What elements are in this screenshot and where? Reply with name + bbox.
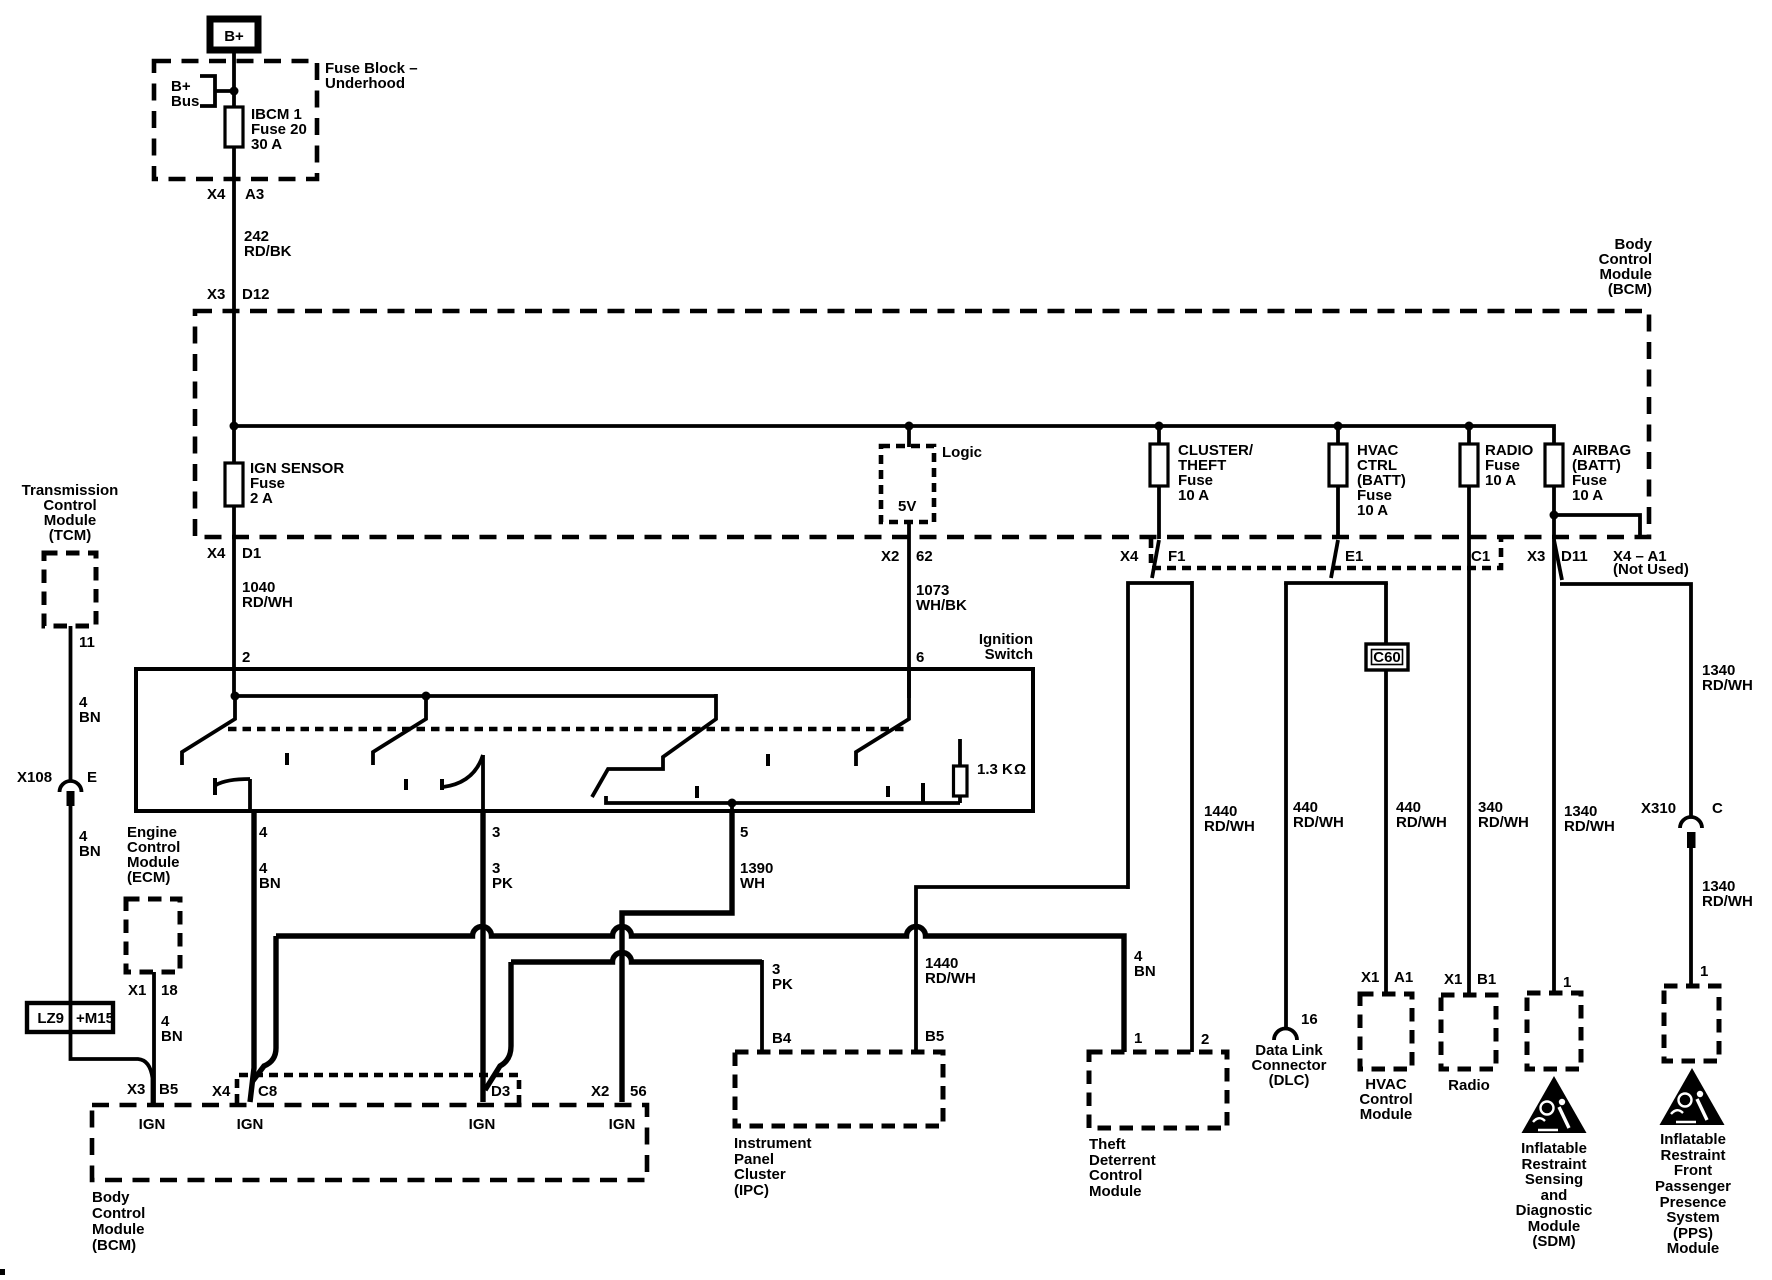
contact tick pin4 [213, 778, 217, 795]
node 5V Logic box [881, 446, 934, 522]
svg-text:(Not Used): (Not Used) [1613, 561, 1689, 578]
svg-text:B4: B4 [772, 1030, 792, 1047]
svg-text:IGN: IGN [237, 1116, 264, 1133]
wire 3 PK pin3 to BCM D3 [480, 811, 485, 1102]
contact tick [921, 783, 925, 803]
svg-text:C1: C1 [1471, 548, 1490, 565]
B+ battery terminal [210, 19, 258, 50]
svg-text:X108: X108 [17, 769, 52, 786]
svg-text:IGN: IGN [609, 1116, 636, 1133]
module PPS box [1664, 986, 1719, 1061]
svg-text:A3: A3 [245, 186, 264, 203]
svg-text:C: C [1712, 800, 1723, 817]
svg-text:BN: BN [259, 875, 281, 892]
svg-text:Module: Module [1089, 1183, 1142, 1200]
component LZ9 +M15 box [27, 1003, 113, 1032]
wire 1440 RD/WH to theft deterrent pin 2 [1190, 581, 1194, 1052]
svg-text:RD/WH: RD/WH [1204, 818, 1255, 835]
svg-text:X4: X4 [1120, 548, 1139, 565]
wire 1340 RD/WH X310 to PPS [1689, 848, 1693, 986]
wire E1 connector slant [1331, 540, 1338, 578]
mechanical link dashed line [228, 727, 904, 732]
svg-text:(ECM): (ECM) [127, 869, 170, 886]
wire E1 tee [1286, 583, 1386, 585]
svg-text:Control: Control [92, 1205, 145, 1222]
svg-text:D1: D1 [242, 545, 261, 562]
svg-text:Body: Body [92, 1189, 130, 1206]
svg-text:B5: B5 [925, 1028, 944, 1045]
fuse IBCM 1 Fuse 20 30A [225, 107, 243, 147]
svg-text:(BCM): (BCM) [1608, 281, 1652, 298]
contact tick [404, 779, 408, 790]
junction bus at 1338 [1334, 422, 1343, 431]
module BCM main box [195, 311, 1649, 537]
svg-text:BN: BN [79, 843, 101, 860]
svg-text:Control: Control [1089, 1167, 1142, 1184]
svg-text:Cluster: Cluster [734, 1166, 786, 1183]
junction B+ bus [230, 87, 239, 96]
junction airbag fuse split [1550, 511, 1559, 520]
svg-text:X2: X2 [881, 548, 899, 565]
svg-text:C8: C8 [258, 1083, 277, 1100]
svg-text:1.3 K: 1.3 K [977, 761, 1013, 778]
svg-text:Ω: Ω [1014, 761, 1026, 778]
svg-text:X1: X1 [128, 982, 146, 999]
fuse CLUSTER/THEFT 10A [1157, 426, 1161, 444]
svg-text:1: 1 [1700, 963, 1708, 980]
wire 4 BN branch from theft rail [252, 936, 276, 1082]
junction bus at 1159 [1155, 422, 1164, 431]
module ECM dashed box [126, 899, 180, 972]
junction bus at 234 [230, 422, 239, 431]
svg-text:Logic: Logic [942, 444, 982, 461]
svg-text:X4: X4 [212, 1083, 231, 1100]
svg-text:Instrument: Instrument [734, 1135, 812, 1152]
wire 4 BN pin4 to BCM C8 [250, 811, 254, 1102]
junction pin5 rail [728, 799, 737, 808]
wire 1073 WH/BK to ignition switch pin 6 [907, 524, 911, 698]
wire hvac fuse to E1 [1336, 486, 1340, 539]
module SDM box [1527, 993, 1581, 1069]
wire 242 RD/BK fuse to BCM [232, 147, 236, 463]
wire F1 tee [1128, 583, 1192, 889]
svg-text:1: 1 [1134, 1030, 1142, 1047]
svg-text:X310: X310 [1641, 800, 1676, 817]
svg-text:E: E [87, 769, 97, 786]
svg-text:C60: C60 [1373, 649, 1401, 666]
fuse AIRBAG (BATT) 10A [1545, 444, 1563, 486]
svg-text:Passenger: Passenger [1655, 1178, 1731, 1195]
module TCM dashed box [44, 553, 96, 626]
contact tick [766, 754, 770, 766]
junction rail mid [422, 692, 431, 701]
wire switch internal top rail [235, 694, 716, 698]
wire B+ down to fuse [232, 50, 236, 107]
wire 440 RD/WH to HVAC control module [1384, 583, 1388, 994]
svg-text:D12: D12 [242, 286, 270, 303]
module HVAC control module box [1360, 994, 1412, 1069]
wire airbag fuse down through D11 to SDM [1552, 486, 1556, 993]
contact tick [285, 753, 289, 765]
switch blade pin 6 [856, 669, 909, 766]
connector DLC arc [1274, 1029, 1297, 1041]
wire F1 connector slant [1152, 540, 1159, 578]
artifact dot bottom left [0, 1269, 5, 1275]
wire ECM pin 18 to BCM B5 [152, 972, 156, 1103]
svg-text:LZ9: LZ9 [37, 1010, 64, 1027]
wire pin 3 inside switch [481, 755, 485, 811]
switch blade ACC assembly [592, 694, 716, 797]
svg-text:Inflatable: Inflatable [1660, 1131, 1726, 1148]
switch blade 2 [373, 696, 426, 765]
svg-text:2 A: 2 A [250, 490, 273, 507]
svg-text:X4: X4 [207, 545, 226, 562]
fuse block underhood box [154, 61, 317, 179]
svg-text:30 A: 30 A [251, 136, 282, 153]
svg-text:+M15: +M15 [76, 1010, 114, 1027]
svg-text:18: 18 [161, 982, 178, 999]
svg-text:RD/WH: RD/WH [1564, 818, 1615, 835]
svg-text:RD/WH: RD/WH [1396, 814, 1447, 831]
wire 340 RD/WH to radio [1467, 486, 1471, 995]
svg-text:B5: B5 [159, 1081, 178, 1098]
wire B+ bus tap [215, 89, 234, 93]
svg-text:10 A: 10 A [1485, 472, 1516, 489]
svg-text:1: 1 [1563, 974, 1571, 991]
svg-text:Sensing: Sensing [1525, 1171, 1583, 1188]
svg-text:RD/WH: RD/WH [1702, 893, 1753, 910]
wire 3 PK drop to B4 [760, 960, 764, 1052]
junction pin2 rail [231, 692, 240, 701]
svg-text:(BCM): (BCM) [92, 1237, 136, 1254]
svg-text:RD/WH: RD/WH [925, 970, 976, 987]
svg-text:Underhood: Underhood [325, 75, 405, 92]
svg-text:16: 16 [1301, 1011, 1318, 1028]
svg-text:Switch: Switch [985, 646, 1033, 663]
switch ignition switch box [136, 669, 1033, 811]
module BCM lower dashed box [92, 1105, 647, 1180]
svg-text:(SDM): (SDM) [1532, 1233, 1575, 1250]
svg-text:Module: Module [1360, 1106, 1413, 1123]
junction bus at 1469 [1465, 422, 1474, 431]
wire 4 BN rail to theft deterrent with hops [276, 927, 1124, 1053]
wire 1040 RD/WH to ignition switch pin 2 [232, 506, 236, 698]
svg-text:3: 3 [492, 824, 500, 841]
svg-text:RD/WH: RD/WH [1293, 814, 1344, 831]
svg-text:(TCM): (TCM) [49, 527, 91, 544]
wire cluster fuse to F1 [1157, 486, 1161, 539]
svg-text:X3: X3 [1527, 548, 1545, 565]
contact tick pin3 [440, 779, 444, 790]
svg-text:F1: F1 [1168, 548, 1186, 565]
svg-text:System: System [1666, 1209, 1719, 1226]
svg-text:X1: X1 [1361, 969, 1379, 986]
connector strip dotted left [1151, 539, 1501, 568]
svg-text:Front: Front [1674, 1162, 1712, 1179]
wire through LZ9 box [69, 1003, 73, 1032]
junction bus at 909 [905, 422, 914, 431]
svg-text:Bus: Bus [171, 93, 199, 110]
svg-text:Module: Module [1667, 1240, 1720, 1257]
svg-text:Diagnostic: Diagnostic [1516, 1202, 1593, 1219]
connector X4 dotted strip [237, 1075, 519, 1103]
svg-text:2: 2 [1201, 1031, 1209, 1048]
icon SDM airbag warning triangle [1522, 1076, 1587, 1133]
svg-text:10 A: 10 A [1572, 487, 1603, 504]
svg-text:RD/BK: RD/BK [244, 243, 292, 260]
svg-text:BN: BN [161, 1028, 183, 1045]
svg-text:X2: X2 [591, 1083, 609, 1100]
icon PPS airbag warning triangle [1660, 1068, 1725, 1125]
module IPC dashed box [735, 1052, 943, 1126]
svg-text:56: 56 [630, 1083, 647, 1100]
contact arc pin3 [443, 755, 483, 787]
svg-text:X3: X3 [127, 1081, 145, 1098]
svg-text:X4: X4 [207, 186, 226, 203]
wire 1340 RD/WH branch to X310 [1560, 584, 1691, 817]
svg-text:5V: 5V [898, 498, 916, 515]
svg-text:A1: A1 [1394, 969, 1413, 986]
svg-text:D11: D11 [1561, 548, 1588, 565]
svg-text:Inflatable: Inflatable [1521, 1140, 1587, 1157]
svg-text:IGN: IGN [469, 1116, 496, 1133]
switch blade 1 [182, 696, 235, 765]
svg-text:10 A: 10 A [1357, 502, 1388, 519]
wire 440 RD/WH to DLC [1284, 583, 1288, 1029]
svg-text:10 A: 10 A [1178, 487, 1209, 504]
svg-text:RD/WH: RD/WH [1702, 677, 1753, 694]
svg-text:X1: X1 [1444, 971, 1462, 988]
wire 3 PK branch to D3 [485, 962, 511, 1090]
svg-text:(DLC): (DLC) [1269, 1072, 1310, 1089]
svg-text:BN: BN [79, 709, 101, 726]
wire B+ bus bracket [200, 76, 215, 106]
module theft deterrent control module box [1089, 1052, 1227, 1128]
wire 1390 WH pin5 to BCM 56 [730, 803, 734, 811]
svg-text:WH/BK: WH/BK [916, 597, 967, 614]
svg-text:E1: E1 [1345, 548, 1363, 565]
svg-text:(IPC): (IPC) [734, 1182, 769, 1199]
wire TCM pin 11 down [69, 626, 73, 780]
svg-text:RD/WH: RD/WH [242, 594, 293, 611]
contact tick [695, 786, 699, 798]
svg-text:B+: B+ [224, 28, 244, 45]
contact tick [886, 786, 890, 797]
wire 1440 RD/WH to IPC B5 [916, 887, 1128, 1052]
wire X4-A1 not used stub [1554, 515, 1640, 535]
wire bus tap to 5V logic [907, 426, 911, 447]
wire TCM to BCM B5 [71, 806, 153, 1103]
wire D11 connector slant [1554, 540, 1562, 580]
svg-text:B1: B1 [1477, 971, 1496, 988]
fuse IGN SENSOR 2A [225, 463, 243, 506]
module radio box [1441, 995, 1496, 1069]
svg-text:WH: WH [740, 875, 765, 892]
svg-text:Radio: Radio [1448, 1077, 1490, 1094]
svg-text:Theft: Theft [1089, 1136, 1126, 1153]
wire 3 PK rail to IPC B4 with hop [511, 953, 762, 963]
svg-text:PK: PK [772, 976, 793, 993]
svg-text:6: 6 [916, 649, 924, 666]
resistor 1.3 K [958, 739, 962, 803]
svg-text:4: 4 [259, 824, 268, 841]
svg-text:5: 5 [740, 824, 748, 841]
svg-text:IGN: IGN [139, 1116, 166, 1133]
fuse HVAC CTRL (BATT) 10A [1336, 426, 1340, 444]
wire main bus inside BCM [234, 426, 1554, 444]
svg-text:RD/WH: RD/WH [1478, 814, 1529, 831]
svg-text:Module: Module [92, 1221, 145, 1238]
wire switch bottom rail [606, 796, 960, 803]
svg-text:BN: BN [1134, 963, 1156, 980]
fuse RADIO 10A [1467, 426, 1471, 444]
svg-text:X3: X3 [207, 286, 225, 303]
wire pin 4 inside switch [248, 779, 252, 811]
connector C60 [1366, 644, 1408, 670]
svg-text:11: 11 [79, 634, 95, 651]
contact arc pin4 [216, 779, 250, 785]
svg-text:D3: D3 [491, 1083, 510, 1100]
svg-text:62: 62 [916, 548, 933, 565]
svg-text:PK: PK [492, 875, 513, 892]
svg-text:2: 2 [242, 649, 250, 666]
